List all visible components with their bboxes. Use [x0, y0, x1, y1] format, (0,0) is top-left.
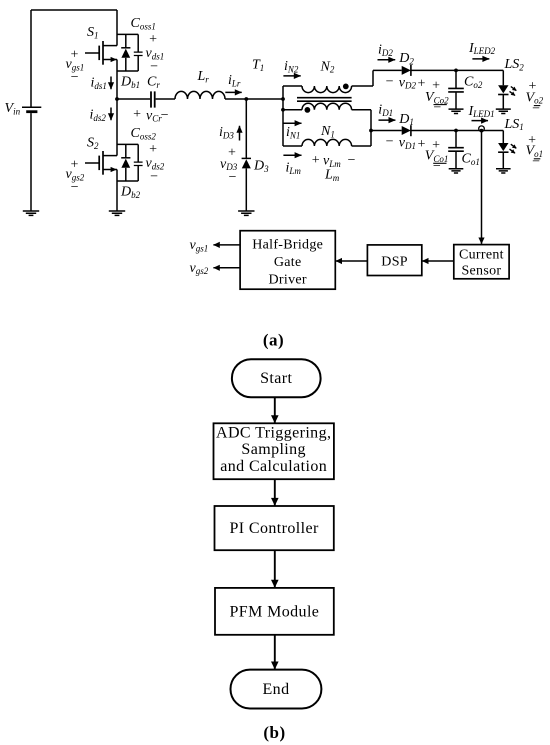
svg-text:Db1: Db1	[120, 75, 140, 90]
svg-text:Lm: Lm	[324, 168, 340, 183]
svg-text:Gate: Gate	[274, 255, 302, 270]
svg-text:N1: N1	[320, 124, 335, 139]
svg-text:iD2: iD2	[378, 42, 393, 57]
label VCo1 subscript underline	[433, 162, 446, 164]
arrow current sensor to DSP	[422, 260, 454, 262]
svg-text:Co1: Co1	[462, 152, 480, 167]
box current sensor	[454, 245, 509, 279]
wire D1 rail right segment	[411, 130, 503, 132]
LED LS2 emission arrows	[511, 87, 517, 91]
svg-text:and Calculation: and Calculation	[220, 458, 327, 475]
diode D3	[242, 158, 251, 211]
svg-text:Start: Start	[260, 370, 292, 387]
polarity dot of N1	[305, 107, 311, 113]
node current-sensor tap bullseye	[479, 126, 485, 133]
node midpoint of half bridge	[115, 97, 119, 101]
svg-text:Coss2: Coss2	[131, 126, 157, 141]
arrow iLm current	[283, 154, 301, 156]
wire transformer left vertical	[282, 86, 284, 146]
capacitor Co1	[448, 131, 464, 169]
wire node A down to D3	[245, 99, 247, 158]
ground below Vin	[23, 211, 39, 215]
flowchart end terminal	[231, 670, 322, 709]
arrow iN1 current	[283, 122, 301, 124]
svg-text:+: +	[311, 153, 320, 168]
svg-text:−: −	[70, 70, 79, 85]
wire transformer right vertical	[370, 110, 372, 146]
wire Lr to node A	[225, 98, 246, 100]
transistor Q S1 mosfet	[85, 41, 117, 65]
capacitor Cr resonant	[151, 91, 155, 107]
flowchart arrow adc to pi	[274, 479, 276, 505]
svg-text:Vin: Vin	[5, 101, 21, 116]
wire N2 up to D2 rail	[372, 70, 374, 86]
svg-text:iD1: iD1	[378, 103, 393, 118]
svg-text:ILED1: ILED1	[468, 104, 495, 119]
polarity dot of N2	[343, 84, 349, 90]
node transformer primary left junction	[281, 97, 285, 101]
wire D1 rail left segment	[371, 130, 402, 132]
svg-text:N2: N2	[320, 59, 335, 74]
svg-text:−: −	[70, 180, 79, 195]
svg-text:D3: D3	[253, 159, 269, 174]
svg-text:LS1: LS1	[504, 117, 524, 132]
flowchart arrow pfm to end	[274, 635, 276, 669]
svg-text:iN1: iN1	[286, 125, 300, 140]
capacitor Co2	[448, 70, 464, 109]
svg-text:ILED2: ILED2	[468, 41, 496, 56]
svg-text:vD1: vD1	[399, 136, 416, 151]
wire S1 source to midpoint node	[116, 60, 118, 156]
svg-text:+: +	[148, 142, 157, 157]
winding N2 secondary top	[283, 86, 373, 93]
flowchart arrow start to adc	[274, 397, 276, 422]
diode Db2 body diode	[121, 144, 130, 181]
svg-text:+: +	[148, 32, 157, 47]
inductor Lr resonant	[175, 91, 225, 99]
svg-text:Co2: Co2	[464, 75, 483, 90]
arrow gate driver out vgs2	[213, 267, 240, 269]
svg-text:Driver: Driver	[269, 273, 307, 288]
svg-text:Sampling: Sampling	[241, 441, 306, 458]
wire D2 rail right segment	[411, 69, 503, 71]
arrow ids2 current	[110, 108, 112, 121]
arrow ids1 current	[110, 77, 112, 90]
LED LS1 emission arrows	[511, 144, 517, 148]
svg-text:Cr: Cr	[147, 75, 160, 90]
arrow ILED1 current	[472, 120, 489, 122]
svg-text:PI Controller: PI Controller	[229, 520, 318, 537]
svg-text:Current: Current	[459, 247, 504, 262]
LED string LS2	[498, 70, 508, 109]
svg-text:T1: T1	[252, 58, 264, 73]
wire S2 source to ground	[116, 170, 118, 212]
arrow iN2 current	[283, 75, 300, 77]
svg-text:iLm: iLm	[286, 161, 302, 176]
svg-text:Lr: Lr	[197, 69, 210, 84]
flowchart box adc	[214, 423, 334, 479]
node A junction of Lr D3 and transformer	[244, 97, 248, 101]
label VCo2 subscript underline	[434, 104, 447, 106]
wire Vin left vertical upper	[30, 10, 32, 107]
svg-text:−: −	[432, 159, 441, 174]
svg-text:iD3: iD3	[219, 125, 234, 140]
winding N1 primary	[283, 103, 371, 110]
svg-text:Coss1: Coss1	[131, 16, 156, 31]
ground below Co2	[449, 109, 464, 113]
wire midpoint to Cr	[117, 98, 150, 100]
svg-text:iN2: iN2	[284, 59, 299, 74]
svg-text:vgs2: vgs2	[190, 261, 209, 276]
ground below S2	[109, 211, 125, 215]
svg-text:End: End	[263, 681, 290, 698]
flowchart arrow pi to pfm	[274, 550, 276, 587]
flowchart box pi controller	[215, 506, 334, 550]
node Co1 top junction	[454, 129, 458, 133]
svg-text:D2: D2	[398, 51, 414, 66]
diode D2	[402, 65, 411, 76]
arrow iD2 current	[378, 59, 396, 61]
inductor Lm magnetizing	[283, 139, 371, 146]
wire S2 parallel-network top rail	[117, 143, 138, 145]
wire tap down to current sensor with arrow	[481, 131, 483, 244]
svg-text:−: −	[160, 108, 169, 123]
svg-text:Half-Bridge: Half-Bridge	[252, 238, 323, 253]
capacitor Coss2	[134, 144, 143, 181]
svg-text:vgs1: vgs1	[190, 238, 209, 253]
box half-bridge gate driver	[240, 231, 335, 290]
label Vo2 subscript underline	[534, 105, 541, 107]
svg-text:−: −	[531, 102, 540, 117]
wire D2 rail left segment	[373, 69, 402, 71]
diode D1	[402, 125, 411, 136]
wire S2 parallel-network bottom rail	[117, 180, 138, 182]
svg-text:−: −	[531, 155, 540, 170]
wire S1 parallel-network bottom rail	[117, 70, 138, 72]
transistor Q S2 mosfet	[85, 151, 117, 175]
svg-text:−: −	[385, 135, 394, 150]
svg-text:DSP: DSP	[381, 254, 408, 269]
wire top bus from Vin+ to S1 drain	[31, 9, 117, 11]
svg-text:ADC Triggering,: ADC Triggering,	[216, 424, 331, 441]
svg-text:ids2: ids2	[90, 108, 107, 123]
arrow iD1 current	[379, 119, 396, 121]
svg-text:+: +	[227, 145, 236, 160]
svg-text:(b): (b)	[263, 723, 285, 742]
ground below Co1	[449, 169, 464, 173]
ground below LS1	[496, 169, 511, 173]
svg-text:ids1: ids1	[91, 76, 107, 91]
svg-text:Db2: Db2	[120, 185, 141, 200]
ground below D3	[238, 211, 254, 215]
wire Vin left vertical lower	[30, 113, 32, 211]
wire Cr to Lr	[156, 98, 175, 100]
box DSP	[367, 245, 421, 276]
svg-text:LS2: LS2	[504, 57, 525, 72]
svg-text:−: −	[385, 74, 394, 89]
transformer T1 core	[297, 98, 352, 102]
svg-text:D1: D1	[398, 112, 414, 127]
arrow ILED2 current	[472, 58, 489, 60]
svg-text:−: −	[149, 60, 158, 75]
svg-text:−: −	[432, 100, 441, 115]
svg-text:iLr: iLr	[228, 73, 241, 88]
arrow iD3 current	[239, 126, 241, 141]
node D1 branch junction	[369, 129, 373, 133]
node N1 left junction	[281, 108, 285, 112]
LED string LS1	[498, 131, 508, 169]
ground below LS2	[496, 109, 511, 113]
arrow gate driver out vgs1	[213, 244, 240, 246]
svg-text:+: +	[132, 107, 141, 122]
arrow iLr current	[225, 91, 241, 93]
svg-text:−: −	[149, 170, 158, 185]
label Vo1 subscript underline	[534, 158, 541, 160]
flowchart box pfm module	[215, 588, 334, 635]
svg-text:(a): (a)	[263, 331, 284, 350]
diode Db1 body diode	[121, 34, 130, 71]
svg-text:Sensor: Sensor	[461, 263, 501, 278]
svg-text:PFM Module: PFM Module	[230, 603, 320, 620]
svg-text:−: −	[228, 170, 237, 185]
flowchart start terminal	[232, 359, 321, 397]
arrow DSP to gate driver	[336, 260, 368, 262]
wire node A to transformer	[246, 98, 283, 100]
svg-text:vD2: vD2	[399, 75, 417, 90]
svg-text:S1: S1	[87, 25, 99, 40]
capacitor Coss1	[134, 34, 143, 71]
node Co2 top junction	[454, 69, 458, 73]
wire S1 parallel-network top rail	[117, 33, 138, 35]
svg-text:−: −	[347, 153, 356, 168]
wire S1 drain vertical	[116, 10, 118, 46]
battery Vin	[22, 107, 41, 112]
svg-text:S2: S2	[87, 136, 99, 151]
